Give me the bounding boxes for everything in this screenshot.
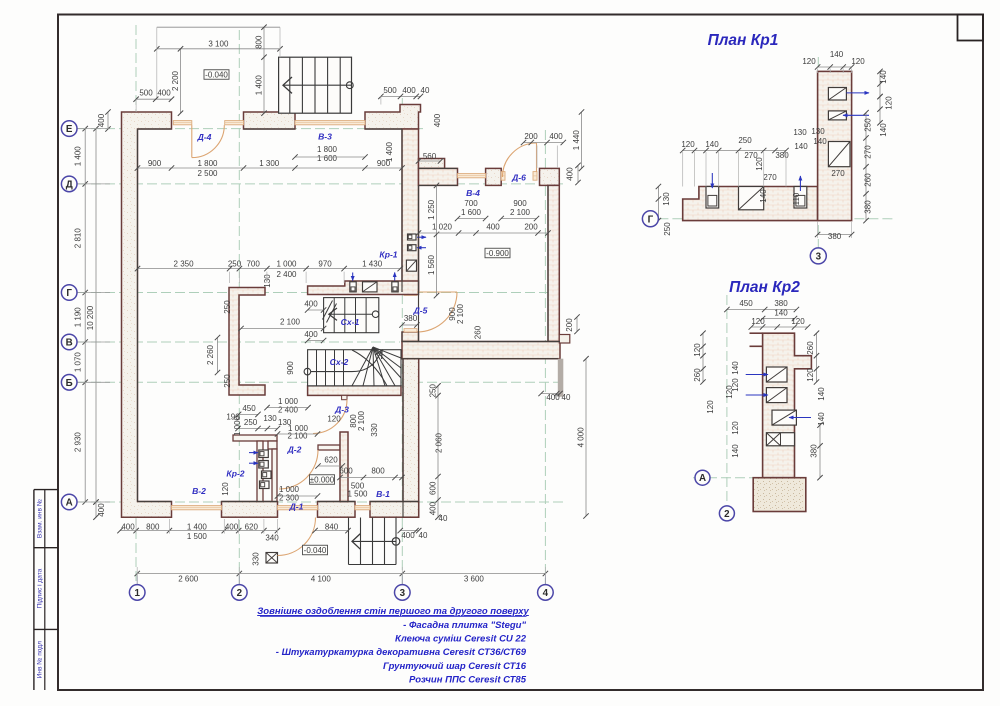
svg-text:4 100: 4 100 — [311, 575, 332, 584]
svg-text:120: 120 — [221, 482, 230, 496]
axis circles E D G V B A — [61, 121, 77, 137]
svg-text:Зовнішнє оздоблення стін першо: Зовнішнє оздоблення стін першого та друг… — [257, 606, 529, 617]
svg-text:-0.900: -0.900 — [486, 249, 509, 258]
svg-text:2 400: 2 400 — [278, 405, 299, 414]
svg-text:380: 380 — [828, 232, 842, 241]
dim: 500/400 left of top wall — [136, 98, 171, 100]
svg-text:План Кр1: План Кр1 — [708, 32, 779, 49]
svg-text:Сх-1: Сх-1 — [341, 317, 360, 327]
dim: 560 ledge — [419, 160, 441, 162]
exterior wall: left side — [122, 112, 172, 517]
svg-text:А: А — [699, 473, 706, 484]
svg-text:1 500: 1 500 — [347, 490, 368, 499]
interior brick wall left of stair — [229, 288, 265, 396]
svg-text:120: 120 — [706, 400, 715, 414]
svg-text:1 800: 1 800 — [317, 145, 338, 154]
svg-text:Д-1: Д-1 — [289, 502, 304, 512]
svg-text:260: 260 — [693, 368, 702, 382]
svg-text:120: 120 — [755, 157, 764, 171]
svg-text:800: 800 — [146, 523, 160, 532]
title block strips (left margin) — [33, 490, 35, 690]
svg-text:900: 900 — [148, 159, 162, 168]
svg-text:130: 130 — [793, 128, 807, 137]
svg-text:500: 500 — [139, 89, 153, 98]
dim: 400 wall thickness left top — [107, 112, 109, 129]
svg-text:400: 400 — [401, 531, 415, 540]
svg-text:В-3: В-3 — [318, 132, 332, 142]
svg-text:- Фасадна плитка "Stegu": - Фасадна плитка "Stegu" — [403, 620, 526, 631]
svg-text:-0.040: -0.040 — [304, 546, 327, 555]
kitchen partition with vent channels Kr-2 — [233, 435, 277, 441]
svg-text:2 100: 2 100 — [287, 432, 308, 441]
vent blocks in G-wall — [350, 282, 356, 292]
grey drain bar below V wall corner — [558, 359, 564, 397]
Kr2 blue arrows — [746, 374, 768, 376]
svg-text:400: 400 — [433, 113, 442, 127]
svg-text:2 100: 2 100 — [280, 318, 301, 327]
svg-text:±0.000: ±0.000 — [310, 476, 335, 485]
svg-text:120: 120 — [791, 317, 805, 326]
svg-text:270: 270 — [831, 169, 845, 178]
dim: 500/400/40 right of top wall — [381, 95, 421, 97]
Kr2 vent blocks — [766, 367, 787, 382]
svg-text:140: 140 — [817, 387, 826, 401]
exterior wall: top right block with porch step — [365, 105, 421, 130]
svg-text:Г: Г — [66, 288, 72, 299]
svg-text:120: 120 — [851, 57, 865, 66]
small pier with X below bottom wall — [266, 553, 278, 564]
svg-text:1 400: 1 400 — [385, 141, 394, 162]
svg-text:270: 270 — [864, 145, 873, 159]
Kr1 horizontal wall band with left step — [683, 187, 818, 221]
wing east wall — [548, 185, 559, 341]
left vertical dim columns — [84, 129, 86, 502]
svg-text:2 200: 2 200 — [171, 70, 180, 91]
underline for heading — [260, 615, 527, 617]
svg-text:380: 380 — [864, 200, 873, 214]
svg-text:900: 900 — [513, 199, 527, 208]
svg-text:Б: Б — [66, 378, 73, 389]
svg-text:120: 120 — [731, 421, 740, 435]
svg-text:1 400: 1 400 — [255, 75, 264, 96]
svg-text:400: 400 — [549, 132, 563, 141]
svg-text:140: 140 — [731, 361, 740, 375]
stair flight Sx-1 — [324, 298, 379, 333]
Kr1 blue arrows — [846, 92, 869, 94]
svg-text:4: 4 — [543, 588, 549, 599]
svg-text:140: 140 — [759, 189, 768, 203]
svg-text:700: 700 — [246, 259, 260, 268]
svg-text:Кр-2: Кр-2 — [226, 469, 244, 479]
svg-text:В-4: В-4 — [466, 188, 480, 198]
svg-text:400: 400 — [225, 523, 239, 532]
Kr1 vertical wall band — [818, 71, 852, 220]
window V-4 in wing top wall — [458, 174, 486, 178]
svg-text:Клеюча суміш Ceresit CU 22: Клеюча суміш Ceresit CU 22 — [395, 634, 527, 645]
svg-text:140: 140 — [830, 50, 844, 59]
wing top wall on axis D with ledge — [419, 159, 445, 169]
svg-text:Г: Г — [648, 214, 654, 225]
svg-text:260: 260 — [864, 173, 873, 187]
svg-text:В-1: В-1 — [376, 489, 390, 499]
svg-text:2 100: 2 100 — [456, 303, 465, 324]
svg-text:600: 600 — [429, 481, 438, 495]
svg-text:140: 140 — [813, 137, 827, 146]
svg-text:250: 250 — [663, 222, 672, 236]
svg-text:2 100: 2 100 — [510, 208, 531, 217]
stair flight Sx-2 with winders — [308, 350, 401, 386]
window V-1 in bottom wall — [355, 506, 370, 510]
svg-text:3 100: 3 100 — [208, 40, 229, 49]
svg-text:110: 110 — [792, 192, 801, 205]
svg-text:В: В — [66, 338, 73, 349]
svg-text:270: 270 — [763, 173, 777, 182]
svg-text:1 800: 1 800 — [197, 159, 218, 168]
svg-text:40: 40 — [439, 514, 448, 523]
vent blocks Kr-1 in stairwell east wall — [408, 234, 417, 240]
svg-text:200: 200 — [524, 223, 538, 232]
svg-text:120: 120 — [802, 57, 816, 66]
svg-text:10 200: 10 200 — [86, 305, 95, 330]
main interior dim row 2350/250/700/1000/970/1430 — [138, 268, 401, 270]
wing bottom wall on axis V — [402, 342, 560, 359]
svg-text:400: 400 — [97, 503, 106, 517]
door D-1 threshold — [278, 506, 318, 510]
svg-text:380: 380 — [774, 299, 788, 308]
svg-text:4 000: 4 000 — [577, 427, 586, 448]
svg-text:1 500: 1 500 — [187, 532, 208, 541]
svg-text:200: 200 — [524, 132, 538, 141]
svg-text:1 190: 1 190 — [74, 307, 83, 328]
stair south wall on axis G — [308, 281, 419, 295]
svg-text:500: 500 — [383, 86, 397, 95]
svg-text:Е: Е — [66, 124, 73, 135]
window V-2 in bottom wall — [172, 506, 222, 510]
svg-text:А: А — [66, 498, 73, 509]
svg-text:1 600: 1 600 — [461, 208, 482, 217]
Kr2 vertical wall band with notch — [763, 333, 812, 478]
svg-text:700: 700 — [464, 199, 478, 208]
door opening D-4 sill stubs — [173, 121, 192, 125]
svg-text:2 350: 2 350 — [174, 259, 195, 268]
svg-text:840: 840 — [325, 523, 339, 532]
svg-text:1 000: 1 000 — [276, 259, 297, 268]
svg-text:2 400: 2 400 — [276, 270, 297, 279]
bottom dimension rows — [120, 530, 277, 532]
frame corner box top-right — [958, 15, 984, 41]
svg-text:130: 130 — [811, 127, 825, 136]
svg-text:900: 900 — [286, 361, 295, 375]
pilaster notch right of axis V wall — [559, 335, 570, 344]
svg-text:330: 330 — [252, 552, 261, 566]
dim row under top wall: 900 1800 1300 900 — [138, 167, 403, 169]
exterior wall: top, pier between D-4 and V-3 — [244, 112, 296, 129]
svg-text:400: 400 — [121, 523, 135, 532]
svg-text:260: 260 — [806, 341, 815, 355]
Kr1 vent blocks horizontal band — [706, 187, 719, 209]
svg-text:3 600: 3 600 — [464, 575, 485, 584]
svg-text:260: 260 — [474, 325, 483, 339]
svg-text:Д-2: Д-2 — [287, 445, 302, 455]
Kr1 axis circles — [642, 211, 658, 227]
Kr2 axis circles — [695, 470, 710, 485]
svg-text:620: 620 — [324, 456, 338, 465]
svg-text:40: 40 — [562, 393, 571, 402]
svg-text:2 060: 2 060 — [435, 432, 444, 453]
axis circles 1-4 — [129, 585, 145, 601]
svg-text:120: 120 — [885, 96, 894, 110]
stair north wall (axis B side) with notch — [308, 386, 401, 396]
svg-text:40: 40 — [421, 86, 430, 95]
window V-3 in top wall — [295, 121, 365, 125]
svg-text:600: 600 — [339, 467, 353, 476]
svg-text:400: 400 — [486, 223, 500, 232]
svg-text:450: 450 — [242, 404, 256, 413]
dim: top 3100 row and stair dims — [157, 26, 280, 28]
svg-text:Сх-2: Сх-2 — [330, 357, 349, 367]
svg-text:2: 2 — [237, 588, 243, 599]
svg-text:2 810: 2 810 — [74, 228, 83, 249]
svg-text:120: 120 — [806, 368, 815, 382]
blue flow arrows into G-wall blocks — [352, 273, 354, 281]
svg-text:Розчин ППС Ceresit СТ85: Розчин ППС Ceresit СТ85 — [409, 674, 527, 685]
svg-text:1 250: 1 250 — [427, 199, 436, 220]
svg-text:380: 380 — [810, 444, 819, 458]
svg-text:Инв № подл: Инв № подл — [37, 641, 44, 679]
svg-text:140: 140 — [879, 123, 888, 137]
svg-text:250: 250 — [244, 418, 258, 427]
svg-text:250: 250 — [429, 383, 438, 397]
svg-text:400: 400 — [566, 167, 575, 181]
partition right of door D-2 — [318, 445, 340, 450]
Kr2 dimensions — [727, 309, 797, 311]
svg-text:Д-5: Д-5 — [413, 306, 428, 316]
lower-right exterior wall — [403, 359, 419, 518]
svg-text:970: 970 — [318, 259, 332, 268]
axis circle connectors — [77, 128, 110, 130]
svg-text:380: 380 — [775, 151, 789, 160]
svg-text:2 600: 2 600 — [178, 575, 199, 584]
svg-text:1 400: 1 400 — [74, 146, 83, 167]
svg-text:340: 340 — [265, 534, 279, 543]
svg-text:1 000: 1 000 — [233, 415, 242, 436]
svg-text:1 560: 1 560 — [427, 254, 436, 275]
svg-text:250: 250 — [223, 300, 232, 314]
svg-text:1 440: 1 440 — [572, 130, 581, 151]
svg-text:Д-6: Д-6 — [511, 173, 526, 183]
svg-text:800: 800 — [255, 35, 264, 49]
svg-text:Кр-1: Кр-1 — [379, 250, 397, 260]
svg-text:Грунтуючий шар Ceresit СТ16: Грунтуючий шар Ceresit СТ16 — [383, 661, 527, 672]
svg-text:Д: Д — [66, 179, 73, 190]
Kr1 extension stubs — [817, 69, 819, 74]
Kr1 dimensions — [818, 66, 852, 68]
svg-text:250: 250 — [223, 374, 232, 388]
svg-text:3: 3 — [816, 251, 822, 262]
svg-text:120: 120 — [693, 343, 702, 357]
door D-2 swing — [279, 450, 318, 489]
exterior stair bottom — [348, 518, 350, 565]
svg-text:Д-4: Д-4 — [197, 132, 212, 142]
svg-text:40: 40 — [419, 531, 428, 540]
svg-text:3: 3 — [400, 588, 406, 599]
vent blocks Kr-2 in kitchen partition — [259, 450, 269, 458]
svg-text:120: 120 — [751, 317, 765, 326]
dark inner wall edge lines — [138, 128, 172, 130]
svg-text:1 020: 1 020 — [432, 223, 453, 232]
svg-text:-0.040: -0.040 — [205, 71, 228, 80]
svg-text:2 100: 2 100 — [357, 410, 366, 431]
extension stubs for mid row — [229, 272, 231, 283]
extension for 200/400 porch dims — [536, 146, 538, 169]
svg-text:1 400: 1 400 — [187, 523, 208, 532]
svg-text:120: 120 — [327, 415, 341, 424]
door D-6 leaf and swing — [536, 143, 538, 172]
svg-text:2: 2 — [724, 509, 730, 520]
svg-text:400: 400 — [304, 330, 318, 339]
svg-text:800: 800 — [371, 467, 385, 476]
svg-text:2 930: 2 930 — [74, 432, 83, 453]
svg-text:Підпис і дата: Підпис і дата — [36, 568, 44, 608]
extension lines bottom rows — [135, 519, 137, 534]
exterior wall: bottom piers on axis A — [222, 502, 278, 518]
svg-text:140: 140 — [705, 140, 719, 149]
svg-text:250: 250 — [864, 118, 873, 132]
door D-5 jamb stubs — [404, 292, 417, 295]
door D-4 leaf and swing — [191, 125, 193, 157]
svg-text:1: 1 — [134, 588, 140, 599]
svg-text:2 500: 2 500 — [197, 169, 218, 178]
svg-text:130: 130 — [263, 414, 277, 423]
Kr2 wall stub top-left — [750, 332, 763, 334]
svg-text:1 300: 1 300 — [259, 159, 280, 168]
svg-text:140: 140 — [774, 309, 788, 318]
door D-3 swing — [313, 400, 347, 434]
svg-text:1 430: 1 430 — [362, 259, 383, 268]
svg-text:400: 400 — [304, 300, 318, 309]
door D-1 swing — [278, 518, 316, 556]
svg-text:120: 120 — [731, 378, 740, 392]
axis spacing dim row 2600/4100/3600 — [137, 573, 545, 575]
door D-5 leaf and swing — [417, 291, 457, 293]
svg-text:450: 450 — [739, 299, 753, 308]
exterior stair top (porch) — [279, 57, 352, 113]
svg-text:1 070: 1 070 — [74, 352, 83, 373]
svg-text:120: 120 — [681, 140, 695, 149]
svg-text:- Штукатуркатурка декоративна: - Штукатуркатурка декоративна Ceresit СТ… — [276, 647, 527, 658]
stairwell east wall (vertical strip) — [402, 129, 419, 292]
svg-text:В-2: В-2 — [192, 486, 206, 496]
svg-text:560: 560 — [423, 152, 437, 161]
Kr1 vent blocks vertical band — [828, 88, 846, 101]
svg-text:Д-3: Д-3 — [334, 405, 349, 415]
level mark -0.040 top — [204, 70, 229, 80]
door D-6 jamb stubs — [501, 172, 505, 181]
svg-text:140: 140 — [731, 444, 740, 458]
svg-text:400: 400 — [97, 113, 106, 127]
svg-text:Взам. инв №: Взам. инв № — [37, 499, 44, 538]
svg-text:400: 400 — [402, 86, 416, 95]
svg-text:130: 130 — [263, 274, 272, 288]
svg-text:2 260: 2 260 — [206, 344, 215, 365]
svg-text:План Кр2: План Кр2 — [729, 279, 800, 296]
svg-text:250: 250 — [228, 259, 242, 268]
Kr2 foundation — [753, 478, 806, 512]
svg-text:620: 620 — [245, 523, 259, 532]
svg-text:400: 400 — [429, 501, 438, 515]
dim: porch right 200/400, 1440 — [524, 142, 564, 144]
svg-text:200: 200 — [565, 318, 574, 332]
axis grid lines (green dashed) — [135, 25, 137, 585]
svg-text:140: 140 — [794, 142, 808, 151]
svg-text:250: 250 — [738, 136, 752, 145]
svg-text:400: 400 — [157, 89, 171, 98]
svg-text:400: 400 — [546, 393, 560, 402]
svg-text:140: 140 — [879, 70, 888, 84]
svg-text:1 600: 1 600 — [317, 154, 338, 163]
svg-text:330: 330 — [370, 423, 379, 437]
svg-text:130: 130 — [662, 192, 671, 206]
